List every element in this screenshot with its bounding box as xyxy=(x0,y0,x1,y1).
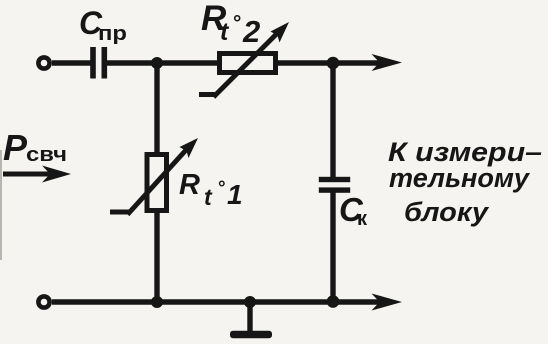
svg-text:к: к xyxy=(357,208,368,230)
wire Ck branch vertical top xyxy=(330,63,335,177)
terminal input bottom xyxy=(38,296,49,307)
thermistor R_t2 diagonal arrow xyxy=(199,22,289,97)
node junction top (R_t1 tap) xyxy=(151,57,163,69)
svg-text:°: ° xyxy=(233,12,241,35)
wire terminal to Cpr xyxy=(52,60,91,65)
svg-text:свч: свч xyxy=(26,144,67,166)
output arrow bottom xyxy=(372,294,403,311)
svg-text:R: R xyxy=(179,169,200,201)
wire R_t2 to output arrow xyxy=(276,60,382,65)
wire Ck to bottom bus xyxy=(330,192,335,302)
svg-text:P: P xyxy=(3,127,28,168)
wire Cpr to R_t2 xyxy=(107,60,219,65)
label R_t2 xyxy=(201,0,260,49)
node junction top right (Ck tap) xyxy=(327,57,340,70)
wire R_t1 to bottom bus xyxy=(154,210,159,302)
svg-text:пр: пр xyxy=(98,23,127,45)
thermistor R_t1 body xyxy=(147,155,167,211)
svg-text:тельному: тельному xyxy=(389,163,531,193)
node junction ground xyxy=(244,296,256,308)
thermistor R_t2 body xyxy=(220,54,276,73)
scan edge artifact left xyxy=(0,150,2,260)
label P_svch xyxy=(3,127,67,168)
bottom bus wire xyxy=(52,299,381,304)
svg-text:°: ° xyxy=(218,178,226,199)
input arrow P_svch xyxy=(3,166,71,183)
capacitor C_k plates xyxy=(319,177,350,193)
svg-text:блоку: блоку xyxy=(404,197,490,227)
node junction bottom right (Ck) xyxy=(327,295,340,308)
label R_t1 xyxy=(179,169,243,210)
label C_k xyxy=(339,191,368,230)
svg-text:1: 1 xyxy=(227,179,243,210)
wire junction down to R_t1 xyxy=(154,63,159,154)
svg-text:2: 2 xyxy=(242,14,260,49)
capacitor C_pr plates xyxy=(90,47,107,79)
output arrow top xyxy=(372,54,403,71)
svg-text:t: t xyxy=(204,184,213,210)
thermistor R_t1 diagonal arrow xyxy=(110,138,198,215)
ground xyxy=(230,302,272,338)
terminal input top xyxy=(38,57,49,68)
annotation: K izmeritel'nomu bloku xyxy=(388,137,542,227)
node junction bottom (R_t1) xyxy=(151,296,163,308)
